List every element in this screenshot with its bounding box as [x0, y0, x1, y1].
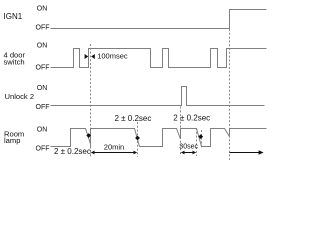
- svg-text:lamp: lamp: [4, 136, 20, 145]
- waveform 4 door switch: [51, 49, 267, 68]
- dashed event line D3 (unlock event / 30sec left boundary): [180, 107, 182, 157]
- dashed event line D1 (door close / 100msec right boundary): [90, 44, 92, 157]
- fade marker diamond 1 (2 ± 0.2sec): [86, 133, 91, 138]
- dashed event line D4 (30sec right boundary, fade 3 start): [196, 128, 198, 156]
- svg-text:30sec: 30sec: [179, 143, 198, 150]
- svg-text:switch: switch: [4, 58, 25, 67]
- svg-text:ON: ON: [37, 127, 48, 134]
- svg-text:IGN1: IGN1: [4, 12, 23, 21]
- measure arrow 30sec: [182, 152, 196, 154]
- svg-text:ON: ON: [37, 43, 48, 50]
- fade marker diamond 3 (2 ± 0.2sec): [198, 134, 203, 139]
- svg-text:2 ± 0.2sec: 2 ± 0.2sec: [115, 114, 152, 123]
- fade marker diamond 2 (2 ± 0.2sec): [135, 136, 140, 141]
- svg-text:OFF: OFF: [36, 25, 50, 32]
- waveform Unlock 2: [51, 87, 265, 106]
- waveform Room lamp: [51, 129, 267, 147]
- svg-text:100msec: 100msec: [97, 52, 128, 61]
- dashed event line D5 (ignition ON): [229, 10, 231, 160]
- arrow right (100msec left bound): [85, 54, 89, 59]
- dashed line at fade 3 end: [201, 130, 203, 148]
- svg-text:20min: 20min: [104, 142, 124, 151]
- arrow left (100msec right bound): [91, 54, 95, 59]
- time axis arrow (bottom right, after ignition ON): [230, 152, 261, 154]
- svg-text:Unlock 2: Unlock 2: [5, 92, 35, 101]
- svg-text:OFF: OFF: [36, 65, 50, 72]
- svg-text:OFF: OFF: [36, 104, 50, 111]
- svg-text:ON: ON: [37, 5, 48, 12]
- waveform IGN1: [51, 10, 267, 29]
- measure arrow 20min: [92, 152, 137, 154]
- svg-text:2 ± 0.2sec: 2 ± 0.2sec: [54, 147, 91, 156]
- svg-text:ON: ON: [37, 85, 48, 92]
- svg-text:2 ± 0.2sec: 2 ± 0.2sec: [173, 114, 210, 123]
- svg-text:OFF: OFF: [36, 145, 50, 152]
- dashed event line D2 (20min right boundary, through fade 2): [137, 122, 139, 157]
